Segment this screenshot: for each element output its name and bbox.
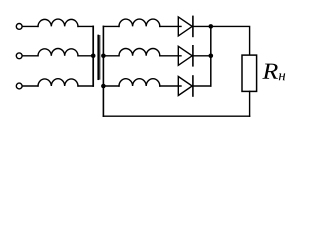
wire secondary winding 1 to diode VD1 xyxy=(160,25,181,27)
primary winding L1a xyxy=(38,19,78,26)
primary winding L1b xyxy=(38,49,78,56)
junction dot secondary bus / winding 3 xyxy=(101,84,106,89)
diode VD3 xyxy=(178,76,211,96)
cathode bus wire xyxy=(210,26,212,86)
diode VD1 xyxy=(178,16,211,36)
junction dot secondary bus / winding 2 xyxy=(101,54,106,59)
wire primary winding 1 to primary bus xyxy=(78,25,93,27)
wire secondary winding 3 to diode VD3 xyxy=(160,85,181,87)
diode VD2 xyxy=(178,46,211,66)
subscript n (Cyrillic) of label xyxy=(279,73,285,80)
wire primary winding 3 to primary bus xyxy=(78,85,93,87)
wire secondary winding 2 to diode VD2 xyxy=(160,55,181,57)
wire secondary bus to secondary winding 1 xyxy=(103,25,119,27)
transformer core line 2 xyxy=(99,36,101,80)
label Rn (load resistor designator) xyxy=(262,64,285,81)
bottom return wire to secondary star point xyxy=(103,115,249,117)
resistor Rn (load) xyxy=(242,55,257,91)
secondary winding L2a xyxy=(119,19,160,26)
secondary winding L2c xyxy=(119,79,160,86)
terminal A (phase input 1) xyxy=(16,24,22,30)
wire resistor bottom to return bus xyxy=(249,91,251,116)
wire terminal C to primary winding 3 xyxy=(22,85,38,87)
transformer core line 1 xyxy=(97,36,99,80)
wire terminal B to primary winding 2 xyxy=(22,55,38,57)
secondary star-point bus wire xyxy=(102,26,104,116)
wire cathode bus to load (top) xyxy=(211,26,250,55)
wire secondary bus to secondary winding 3 xyxy=(103,85,119,87)
terminal B (phase input 2) xyxy=(16,53,22,59)
wire secondary bus to secondary winding 2 xyxy=(103,55,119,57)
wire terminal A to primary winding 1 xyxy=(22,25,38,27)
primary star-point bus wire xyxy=(92,26,94,86)
junction dot primary bus / winding 2 xyxy=(91,54,96,59)
junction dot cathode bus / diode VD1 xyxy=(209,24,214,29)
wire primary winding 2 to primary bus xyxy=(78,55,93,57)
letter R of label xyxy=(262,64,278,79)
junction dot cathode bus / diode VD2 xyxy=(209,54,214,59)
primary winding L1c xyxy=(38,79,78,86)
secondary winding L2b xyxy=(119,49,160,56)
terminal C (phase input 3) xyxy=(16,83,22,89)
